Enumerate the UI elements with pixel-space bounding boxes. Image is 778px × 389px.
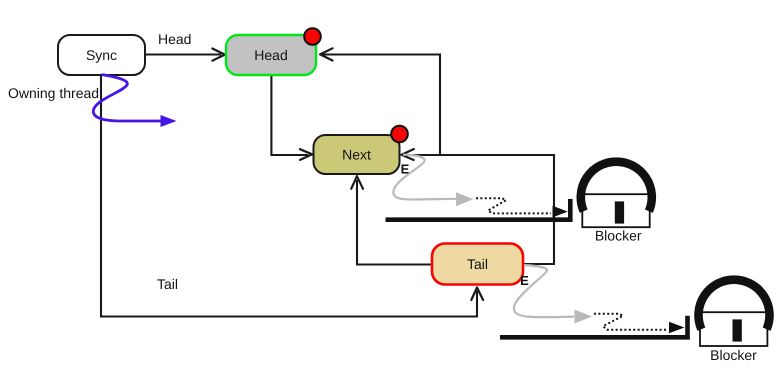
svg-text:Head: Head xyxy=(254,47,287,63)
svg-text:E: E xyxy=(520,273,529,288)
svg-text:Tail: Tail xyxy=(467,256,488,272)
svg-text:Blocker: Blocker xyxy=(710,347,757,363)
svg-text:Head: Head xyxy=(158,31,191,47)
svg-text:Next: Next xyxy=(342,147,371,163)
svg-text:Owning thread: Owning thread xyxy=(8,85,99,101)
svg-text:Sync: Sync xyxy=(86,47,117,63)
svg-text:Tail: Tail xyxy=(157,276,178,292)
svg-text:Blocker: Blocker xyxy=(595,228,642,244)
